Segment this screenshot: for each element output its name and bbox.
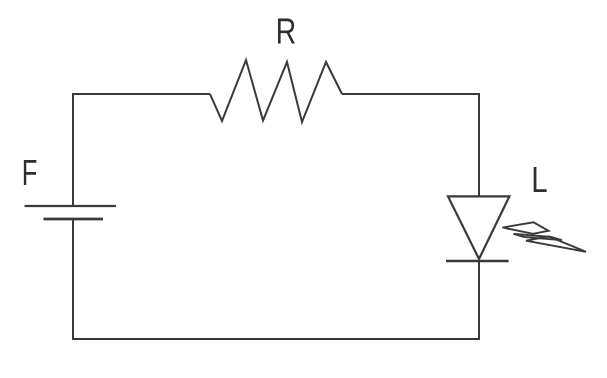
LED L : diode triangle [448, 196, 509, 259]
wire: left side top segment (battery + terminal up to top-left corner) [72, 94, 74, 206]
resistor R [210, 60, 342, 122]
svg-text:L: L [531, 159, 547, 200]
battery F : long positive plate [25, 205, 117, 207]
svg-text:F: F [22, 152, 38, 193]
wire: left side bottom segment (battery - terminal down to bottom-left corner) [72, 219, 74, 340]
wire: top-right horizontal from resistor to top-right corner [342, 93, 480, 95]
LED light flash bolt [503, 222, 587, 252]
svg-text:R: R [276, 11, 297, 52]
LED cathode bar [446, 260, 509, 263]
wire: bottom horizontal [72, 338, 480, 340]
wire: top-left horizontal to resistor [72, 93, 210, 95]
wire: right side from LED cathode down to bottom-right corner [478, 261, 480, 340]
battery F : short negative plate [44, 218, 104, 221]
wire: right side down to LED anode [478, 93, 480, 197]
